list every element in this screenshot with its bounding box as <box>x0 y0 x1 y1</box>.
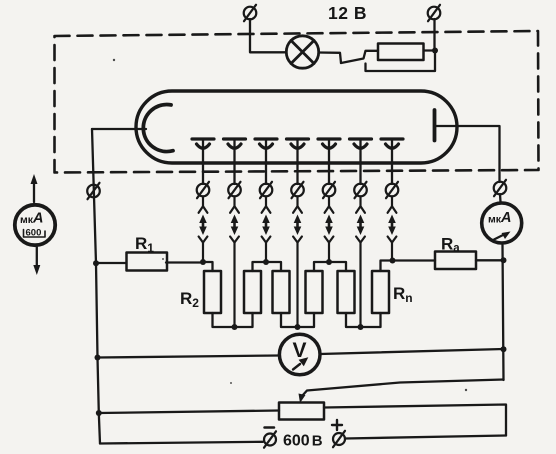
node: D3 tap <box>263 259 269 265</box>
terminal (dynode D6) <box>354 182 367 198</box>
wire junction up to right 12V terminal <box>433 19 435 51</box>
scan speck near dashed box <box>113 59 115 61</box>
left bus wire (cathode line) <box>92 129 100 444</box>
terminal (600V plus) <box>333 431 345 447</box>
node: Ra / right bus <box>501 257 507 263</box>
dynode D7 stem <box>391 140 393 184</box>
wire lamp to switch blade <box>319 53 341 64</box>
potentiometer body <box>279 403 324 420</box>
terminal (dynode D7) <box>386 182 399 198</box>
wire R2 bottom to bus segment 1 <box>213 313 253 327</box>
dynode D4 stem <box>296 140 298 184</box>
terminal (dynode D3) <box>260 182 273 198</box>
dynode D1 <box>192 139 214 148</box>
resistor R2 (divider) <box>204 271 221 313</box>
lamp HL (incandescent) <box>286 36 318 68</box>
left meter down arrow <box>33 247 40 275</box>
rheostat R (filament regulator) <box>378 44 424 61</box>
switch blade to rheostat <box>341 51 378 63</box>
left meter up arrow <box>31 174 38 202</box>
resistor Ra (anode load) <box>435 252 476 270</box>
svg-text:мкА: мкА <box>20 211 44 227</box>
wire 600V line right <box>345 436 506 439</box>
right meter needle <box>494 232 511 240</box>
node: D7 tap <box>390 258 396 264</box>
resistor R6 (divider) <box>338 271 355 313</box>
resistor Rn (divider) <box>372 271 389 313</box>
photocathode arc <box>143 105 173 152</box>
wire rheostat to junction <box>424 49 435 51</box>
right bus wire (meter down to wiper corner) <box>503 245 504 380</box>
dynode D7 <box>381 139 403 148</box>
node: D5 tap <box>326 259 332 265</box>
terminal (dynode D2) <box>228 182 241 198</box>
wire rheostat slider tap bracket <box>366 51 436 72</box>
wire from left 12V terminal to lamp <box>250 19 286 52</box>
label plus <box>332 420 342 430</box>
svg-text:12 В: 12 В <box>328 3 367 23</box>
terminal (cathode bus) <box>87 183 100 199</box>
wire potentiometer to right corner <box>324 405 506 436</box>
dynode D6 stem <box>359 140 361 184</box>
terminal (anode) <box>494 180 507 196</box>
resistor R4 (divider) <box>273 271 290 313</box>
node: D6 bottom junction <box>358 324 364 330</box>
wire anode terminal to right microammeter <box>499 194 502 202</box>
scan speck below Ra <box>465 389 467 391</box>
wire R6 bottom to bus segment 3 <box>346 313 381 327</box>
voltmeter PV <box>279 334 320 375</box>
dynode D2 stem <box>233 140 235 184</box>
dynode D5 <box>318 139 340 148</box>
wire anode to right <box>436 126 500 182</box>
dynode D4 <box>287 139 309 148</box>
svg-text:мкА: мкА <box>488 210 512 226</box>
terminal (12V right) <box>428 5 441 21</box>
wire Rn top to D7 tap <box>381 261 393 272</box>
microammeter PA2 (anode current) <box>482 203 522 243</box>
node: left bus / voltmeter line <box>95 355 101 361</box>
plug connector D6 <box>356 196 365 327</box>
node: left bus / potentiometer <box>96 410 102 416</box>
wire R1 to dynode D1 tap <box>166 261 203 263</box>
resistor R5 (divider) <box>306 271 323 313</box>
wire D1 tap to R2 top <box>203 262 213 271</box>
wire D5 tap to R6 top <box>329 262 346 271</box>
svg-text:Ra: Ra <box>441 235 460 255</box>
terminal (12V left) <box>244 5 257 21</box>
dynode D5 stem <box>328 140 330 184</box>
plug connector D4 <box>293 196 302 327</box>
dynode D3 <box>255 139 277 148</box>
left meter scale brackets <box>24 230 46 238</box>
svg-text:600В: 600В <box>283 433 323 450</box>
node: D2 bottom junction <box>232 324 238 330</box>
dynode D6 <box>350 139 372 148</box>
plug connector D3 <box>262 196 271 263</box>
dynode D1 stem <box>202 140 204 184</box>
plug connector D5 <box>325 196 334 263</box>
svg-text:Rn: Rn <box>393 284 413 305</box>
node: rheostat/terminal junction <box>432 48 438 54</box>
wire left bus to potentiometer <box>99 411 279 414</box>
scan speck near pot <box>230 382 232 384</box>
svg-text:R1: R1 <box>135 234 154 255</box>
plug connector D1 (fork-arrow-fork) <box>199 196 208 263</box>
wire D3 tap to R4 top <box>266 262 281 271</box>
voltmeter needle <box>293 357 308 369</box>
wire D7 tap to Ra <box>393 259 436 261</box>
terminal (dynode D4) <box>291 182 304 198</box>
terminal (600V minus) <box>264 431 276 447</box>
resistor R1 <box>127 253 168 271</box>
wire R4 bottom to bus segment 2 <box>281 313 314 327</box>
node: right bus / voltmeter line <box>501 346 507 352</box>
label minus <box>265 426 275 429</box>
wiper arrow onto potentiometer <box>299 394 306 404</box>
wire Ra to right bus <box>476 259 504 261</box>
svg-text:R2: R2 <box>180 289 199 310</box>
dashed enclosure (light-tight housing) <box>55 31 539 173</box>
wire R3 top to D3 tap <box>253 262 267 271</box>
terminal (dynode D5) <box>323 182 336 198</box>
potentiometer wiper wire from right bus <box>302 380 504 397</box>
plug connector D2 <box>230 196 239 327</box>
resistor R3 (divider) <box>244 271 261 313</box>
terminal (dynode D1) <box>197 182 210 198</box>
wire 600V line left <box>100 442 263 444</box>
voltmeter line right segment <box>320 349 504 354</box>
scan speck near R1 tap <box>162 258 164 260</box>
node: left bus / R1 <box>93 260 99 266</box>
node: D4 bottom junction <box>295 324 301 330</box>
node: D1 tap <box>200 259 206 265</box>
wire left bus to R1 <box>96 262 126 264</box>
photomultiplier tube envelope <box>136 91 457 163</box>
dynode D3 stem <box>265 140 267 184</box>
wire cathode to left bus <box>92 128 146 130</box>
microammeter PA1 (floating, left) <box>15 205 55 245</box>
wire R5 top to D5 tap <box>314 262 329 271</box>
anode bar <box>433 110 437 141</box>
voltmeter line left segment <box>98 356 280 358</box>
plug connector D7 <box>388 196 397 261</box>
dynode D2 <box>224 139 246 148</box>
